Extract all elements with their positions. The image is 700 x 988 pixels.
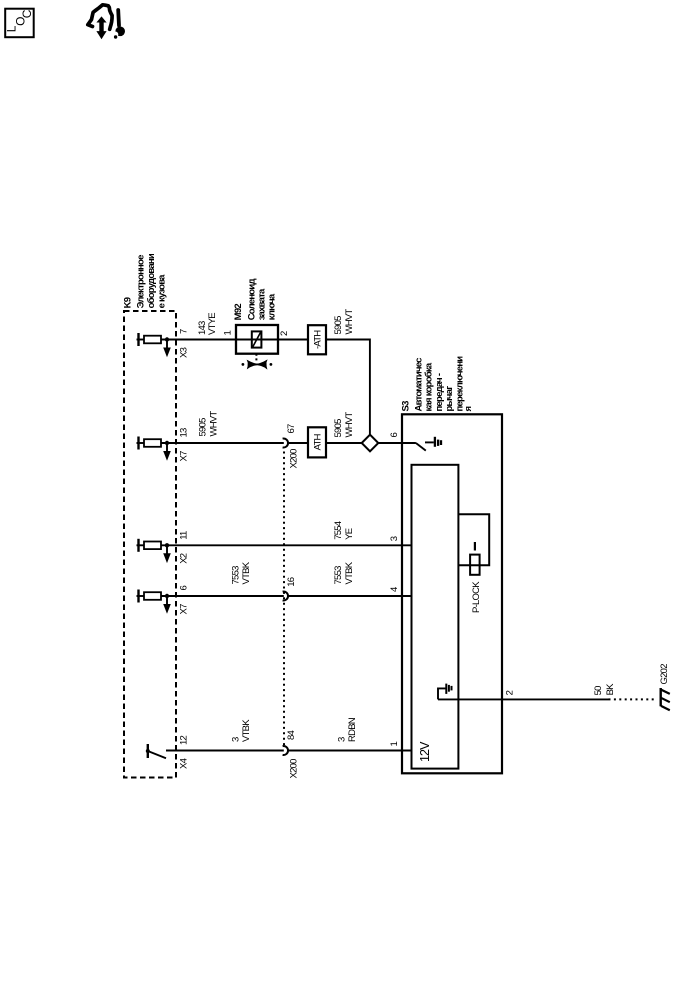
- svg-text:переключени: переключени: [455, 356, 466, 412]
- S3 component box: [402, 414, 502, 773]
- svg-text:7554: 7554: [333, 521, 344, 540]
- fuse row4 (X7 pin6): [137, 590, 171, 614]
- svg-text:1: 1: [223, 331, 234, 336]
- X200 connector row5: [283, 746, 288, 755]
- wire row1 to corner and down to diamond: [326, 340, 370, 436]
- svg-text:7553: 7553: [230, 566, 241, 585]
- S3 pin6 internal switch to ground: [416, 437, 441, 451]
- svg-text:X7: X7: [179, 451, 190, 462]
- fuse row3 (X2 pin11): [137, 539, 171, 563]
- splice diamond: [362, 435, 379, 452]
- svg-text:YE: YE: [344, 528, 355, 540]
- svg-text:K9: K9: [123, 297, 134, 308]
- svg-text:84: 84: [286, 730, 297, 740]
- wire diamond to S3 pin6: [377, 442, 416, 444]
- ground G202: [659, 664, 670, 710]
- svg-text:7: 7: [179, 329, 190, 334]
- svg-text:Электронное: Электронное: [136, 255, 147, 309]
- svg-text:2: 2: [505, 690, 516, 695]
- M92 title: [233, 279, 277, 321]
- wire row4 right: [288, 595, 412, 597]
- vehicle/transmission icon: [88, 5, 125, 39]
- fuse row1 (X3 pin7): [137, 333, 171, 357]
- svg-text:G202: G202: [659, 664, 670, 685]
- wire row1: M92.2 to -ATH: [278, 339, 308, 341]
- svg-text:12: 12: [179, 735, 190, 745]
- wire row5 right: [288, 750, 412, 752]
- X200 connector row4: [283, 592, 288, 601]
- svg-text:я: я: [463, 407, 474, 412]
- wire row3: X2.11 to S3.3: [161, 544, 412, 546]
- svg-text:1: 1: [389, 742, 400, 747]
- svg-text:ATH: ATH: [312, 433, 323, 450]
- X200 connector row2: [283, 439, 288, 448]
- svg-text:RDBN: RDBN: [347, 717, 358, 742]
- svg-text:-ATH: -ATH: [312, 330, 323, 349]
- svg-text:5905: 5905: [333, 419, 344, 438]
- M92 mechanical link dotted: [255, 354, 257, 361]
- svg-text:BK: BK: [605, 683, 616, 696]
- svg-text:C: C: [20, 9, 34, 18]
- svg-text:S3: S3: [400, 401, 411, 412]
- svg-text:VTBK: VTBK: [241, 719, 252, 742]
- M92 internal solenoid symbol: [252, 331, 262, 347]
- switch row5 (X4 pin12): [146, 744, 166, 758]
- svg-text:P-LOCK: P-LOCK: [471, 581, 482, 613]
- M92 key solenoid box: [236, 325, 278, 354]
- splice ATH box: [308, 427, 326, 457]
- svg-text:2: 2: [279, 331, 290, 336]
- svg-text:13: 13: [179, 428, 190, 438]
- wire row1: X3.7 to M92.1: [161, 339, 236, 341]
- svg-text:5905: 5905: [198, 418, 209, 437]
- svg-text:VTBK: VTBK: [241, 561, 252, 584]
- P-LOCK sub-circuit: [458, 514, 489, 613]
- svg-text:12V: 12V: [418, 741, 432, 762]
- svg-text:16: 16: [286, 577, 297, 587]
- S3 inner module rect: [412, 465, 459, 769]
- svg-text:3: 3: [337, 737, 348, 742]
- X200 harness dotted line: [283, 452, 285, 746]
- svg-text:WHVT: WHVT: [344, 309, 355, 335]
- svg-text:VTYE: VTYE: [207, 313, 218, 335]
- svg-text:5905: 5905: [333, 316, 344, 335]
- svg-text:X3: X3: [179, 347, 190, 358]
- K9 title: [123, 253, 168, 308]
- K9 dashed component box: [124, 311, 176, 778]
- svg-text:оборудовани: оборудовани: [146, 253, 157, 308]
- wire ATH to diamond: [326, 442, 363, 444]
- wire row4 left: [161, 595, 284, 597]
- svg-text:WHVT: WHVT: [209, 411, 220, 437]
- M92 key symbol: [242, 359, 273, 369]
- fuse row2 (X7 pin13): [137, 437, 171, 461]
- wire row2: X200 to ATH: [288, 442, 308, 444]
- svg-text:X2: X2: [179, 553, 190, 564]
- svg-text:е кузова: е кузова: [157, 274, 168, 309]
- wire pin2 to G202: [438, 698, 609, 700]
- svg-text:M92: M92: [233, 304, 244, 321]
- splice -ATH box: [308, 325, 326, 354]
- LOC box: [5, 9, 34, 38]
- svg-text:ключа: ключа: [267, 293, 278, 320]
- wire row5 left: [166, 750, 284, 752]
- svg-text:67: 67: [286, 424, 297, 434]
- svg-text:4: 4: [389, 587, 400, 592]
- S3 pin2 internal ground: [438, 684, 452, 700]
- svg-text:11: 11: [179, 531, 190, 540]
- svg-text:6: 6: [389, 433, 400, 438]
- svg-text:50: 50: [593, 686, 604, 696]
- svg-text:X200: X200: [289, 759, 300, 779]
- S3 title: [400, 356, 474, 412]
- svg-text:X4: X4: [179, 758, 190, 769]
- svg-text:VTBK: VTBK: [344, 561, 355, 584]
- svg-text:WHVT: WHVT: [344, 412, 355, 438]
- svg-text:X7: X7: [179, 604, 190, 615]
- wire inside M92: [236, 339, 278, 341]
- svg-text:X200: X200: [289, 449, 300, 469]
- dotted wire to G202: [609, 698, 658, 700]
- wire row2: X7.13 to X200: [161, 442, 284, 444]
- svg-text:3: 3: [389, 536, 400, 541]
- svg-text:6: 6: [179, 586, 190, 591]
- svg-text:7553: 7553: [333, 566, 344, 585]
- svg-text:3: 3: [230, 737, 241, 742]
